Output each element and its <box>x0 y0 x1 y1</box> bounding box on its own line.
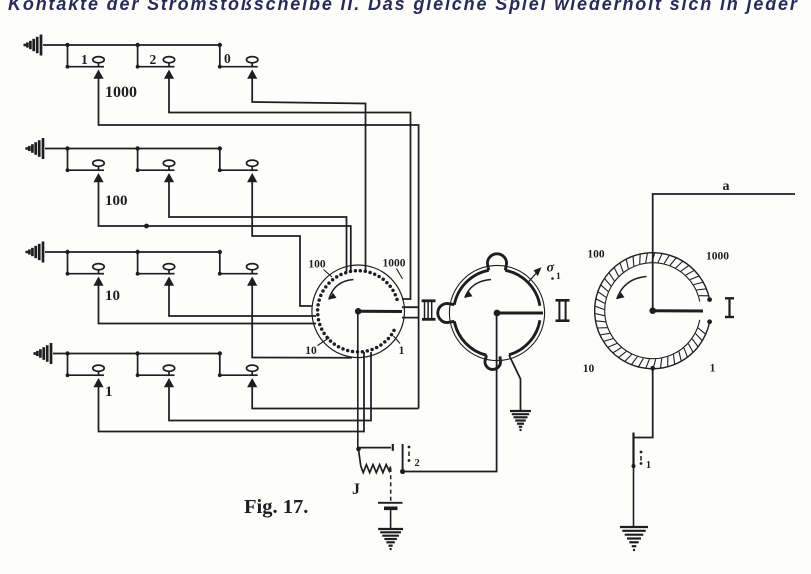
wire K32 to dial III left <box>169 286 316 317</box>
dial I gap end dots <box>707 297 712 324</box>
ground row1 (hatched earth, left) <box>25 35 41 56</box>
figure caption Fig. 17. <box>244 496 308 518</box>
svg-text:1000: 1000 <box>105 84 137 101</box>
label 100 (dial I) <box>587 249 605 261</box>
label 1 (dial I) <box>710 363 716 375</box>
label 1000 (dial III) <box>383 258 406 280</box>
wiper arrow at contact K13 <box>247 70 257 79</box>
dial III outer circle <box>312 265 405 358</box>
wiper arrow at contact K32 <box>164 277 174 286</box>
wire dial III wiper to interrupter J <box>357 311 359 449</box>
node and stem row3 contact1 <box>65 250 104 276</box>
svg-text:Kontakte der Stromstoßscheibe: Kontakte der Stromstoßscheibe II. Das gl… <box>8 0 799 14</box>
battery B <box>378 503 403 509</box>
wiper arrow at contact K31 <box>93 277 103 286</box>
label sigma1 with arrow <box>529 261 561 283</box>
node and stem row3 contact2 <box>135 250 174 276</box>
contact K43 (bank row4 pos3) <box>247 365 258 375</box>
label 1000 (dial I) <box>706 251 729 263</box>
wiper arrow at contact K41 <box>93 378 103 387</box>
wire (dashed) J to battery <box>390 468 392 501</box>
svg-text:10: 10 <box>305 345 317 357</box>
wiper arrow at contact K23 <box>247 173 257 182</box>
dial I wiper and hub <box>649 307 703 314</box>
label i2 <box>408 446 420 469</box>
dial III wiper and hub <box>355 308 402 315</box>
svg-text:100: 100 <box>308 259 326 271</box>
svg-text:10: 10 <box>105 288 120 304</box>
dial II cam ring with lobes <box>438 254 540 370</box>
wire dial II cam to ground <box>509 355 521 411</box>
label i1 <box>640 451 651 471</box>
label 100 (row2 value) <box>105 193 128 209</box>
roman numeral II (dial II designator) <box>556 300 570 320</box>
wire K42 to dial III bottom <box>169 352 371 421</box>
contact K41 (bank row4 pos1) <box>93 365 104 375</box>
label 0 (contact K13) <box>224 51 231 66</box>
contact K12 (bank row1 pos2) <box>163 57 174 67</box>
label 10 (row3 value) <box>105 288 120 304</box>
label 2 (contact K12) <box>150 52 157 67</box>
contact K11 (bank row1 pos1) <box>93 57 104 67</box>
wire bus row3 <box>45 251 220 253</box>
contact K31 (bank row3 pos1) <box>93 264 104 274</box>
svg-text:1000: 1000 <box>706 251 729 263</box>
svg-text:100: 100 <box>105 193 128 209</box>
dial I scale ticks <box>595 252 710 369</box>
ground below dial I <box>620 527 648 550</box>
dial II rotation arrow <box>465 280 491 298</box>
node dial I bottom <box>650 366 655 371</box>
svg-text:100: 100 <box>587 249 605 261</box>
roman numeral I (dial I designator) <box>725 298 734 317</box>
svg-text:J: J <box>352 481 360 498</box>
dial II wiper and hub <box>494 310 543 317</box>
ground row4 (hatched earth, left) <box>35 343 51 364</box>
dial II outer circle <box>449 265 544 360</box>
svg-text:10: 10 <box>583 363 595 375</box>
wire K31 to dial III left <box>99 286 317 324</box>
contact bar i1 <box>632 433 636 469</box>
node and stem row1 contact1 <box>65 43 104 69</box>
contact K21 (bank row2 pos1) <box>93 160 104 170</box>
wire K22 to dial III top-left <box>169 182 347 272</box>
junction blob on K21 wire <box>144 224 149 229</box>
wire bus row1 <box>43 44 220 46</box>
node and stem row4 contact2 <box>135 351 174 377</box>
wire K43 to brush plate vertical <box>252 387 418 409</box>
svg-text:1: 1 <box>556 272 561 282</box>
dial I rotation arrow <box>617 277 647 300</box>
wiper arrow at contact K33 <box>247 277 257 286</box>
svg-text:2: 2 <box>415 458 420 469</box>
wire a from dial I hub <box>653 194 795 311</box>
svg-text:1: 1 <box>399 345 405 357</box>
contact K32 (bank row3 pos2) <box>163 264 174 274</box>
node J (dial III wire end) <box>356 447 361 452</box>
node and stem row2 contact1 <box>65 146 104 172</box>
node and stem row2 contact2 <box>135 146 174 172</box>
dial I inner ring <box>605 263 700 359</box>
label 100 (dial III) <box>308 259 332 278</box>
wire battery to ground <box>390 510 392 529</box>
wiper arrow at contact K43 <box>247 378 257 387</box>
svg-text:1: 1 <box>81 52 88 67</box>
node and stem row1 contact3 <box>218 43 258 69</box>
node and stem row4 contact3 <box>218 351 258 377</box>
contact K33 (bank row3 pos3) <box>247 264 258 274</box>
label 1 (row4 value) <box>105 384 113 400</box>
node and stem row4 contact1 <box>65 351 104 377</box>
wire K12 to dial III right <box>169 79 411 300</box>
svg-text:1: 1 <box>710 363 716 375</box>
svg-text:σ: σ <box>547 261 555 276</box>
wiper arrow at contact K22 <box>164 173 174 182</box>
wire dial II wiper down to contact i2 <box>403 313 497 472</box>
svg-text:1: 1 <box>646 460 651 471</box>
dial III contact dots ring <box>316 269 399 354</box>
wire K41 to dial III bottom <box>99 352 365 432</box>
node and stem row1 contact2 <box>135 43 174 69</box>
svg-text:1000: 1000 <box>383 258 406 270</box>
ground below battery <box>378 529 403 549</box>
wire K33 to dial III bottom-left <box>252 286 352 358</box>
svg-text:a: a <box>723 179 730 194</box>
svg-text:2: 2 <box>150 52 157 67</box>
contact bar i2 <box>400 444 405 474</box>
node and stem row3 contact3 <box>218 250 258 276</box>
wire bus row4 <box>53 353 220 355</box>
label 1 (dial III) <box>394 336 405 357</box>
brush plate upper (dial III output) <box>402 306 419 308</box>
label a (net a) <box>723 179 730 194</box>
wiper arrow at contact K21 <box>93 173 103 182</box>
spring arm and resistor coil J <box>359 450 391 473</box>
roman numeral III (dial III designator) <box>422 301 436 320</box>
wire K11 to brush plate / K43 bus <box>99 79 419 409</box>
fixed contact of J <box>359 444 393 451</box>
wiper arrow at contact K11 <box>93 70 103 79</box>
wiper arrow at contact K12 <box>164 70 174 79</box>
contact K22 (bank row2 pos2) <box>163 160 174 170</box>
label 10 (dial I) <box>583 363 595 375</box>
wire K13 to dial III top <box>252 79 365 271</box>
contact K23 (bank row2 pos3) <box>247 160 258 170</box>
svg-text:0: 0 <box>224 51 231 66</box>
contact K13 (bank row1 pos3) <box>247 57 258 67</box>
wire bus row2 <box>45 148 220 150</box>
svg-text:1: 1 <box>105 384 113 400</box>
brush plate lower (dial III output) <box>402 317 419 319</box>
dial III rotation arrow <box>329 280 354 300</box>
contact K42 (bank row4 pos2) <box>163 365 174 375</box>
caption text (cropped at top) <box>8 0 799 14</box>
ground below dial II <box>510 411 531 430</box>
wire dial I bottom to contact i1 <box>634 368 653 437</box>
wire K21 to dial III top-left <box>99 182 351 271</box>
label J <box>352 481 360 498</box>
wire i1 to ground <box>633 466 635 527</box>
wiper arrow at contact K42 <box>164 378 174 387</box>
svg-text:Fig. 17.: Fig. 17. <box>244 496 308 518</box>
ground row3 (hatched earth, left) <box>27 242 43 263</box>
wire K23 to dial III upper-left <box>252 182 311 306</box>
label 1 (contact K11) <box>81 52 88 67</box>
node and stem row2 contact3 <box>218 146 258 172</box>
label 1000 (row1 value) <box>105 84 137 101</box>
label 10 (dial III) <box>305 338 329 358</box>
dial I outer ring <box>595 253 710 369</box>
ground row2 (hatched earth, left) <box>27 138 43 159</box>
